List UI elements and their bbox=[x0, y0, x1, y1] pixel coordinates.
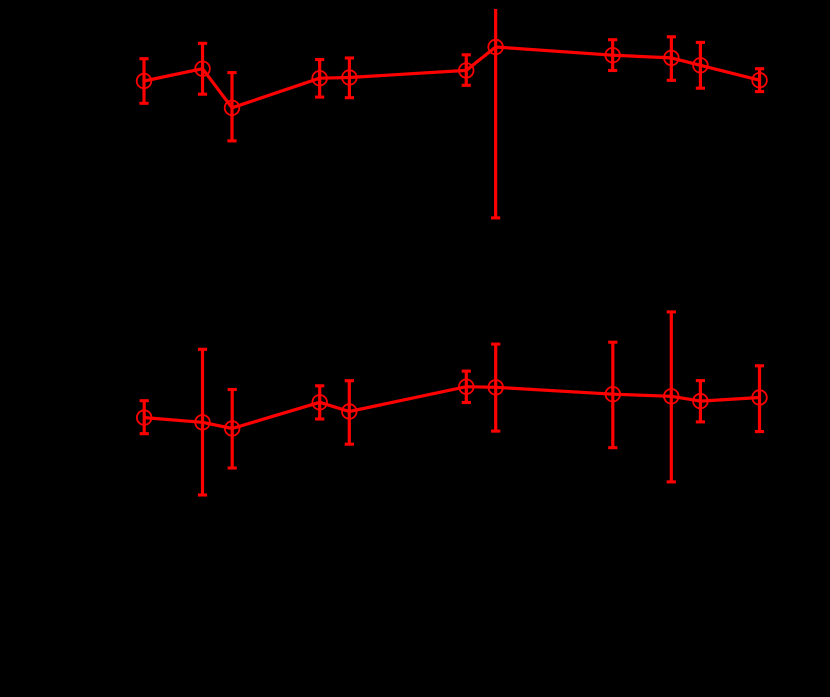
marker bot-6 bbox=[459, 379, 474, 394]
cap top top-1 bbox=[139, 57, 148, 60]
cap top bot-10 bbox=[696, 379, 705, 382]
marker top-9 bbox=[664, 51, 679, 66]
error bar top-11 bbox=[758, 69, 761, 92]
cap top top-6 bbox=[462, 53, 471, 56]
cap top top-11 bbox=[755, 67, 764, 70]
cap top top-8 bbox=[608, 38, 617, 41]
marker top-6 bbox=[459, 63, 474, 78]
marker bot-7 bbox=[488, 380, 503, 395]
cap bottom bot-3 bbox=[228, 466, 237, 469]
error bar bot-7 bbox=[494, 344, 497, 431]
marker bot-10 bbox=[693, 394, 708, 409]
cap bottom bot-6 bbox=[462, 401, 471, 404]
cap bottom top-2 bbox=[198, 93, 207, 96]
marker bot-4 bbox=[312, 395, 327, 410]
cap top bot-4 bbox=[315, 384, 324, 387]
marker bot-8 bbox=[606, 387, 621, 402]
data line top series bbox=[144, 47, 760, 108]
cap top bot-9 bbox=[667, 310, 676, 313]
cap bottom bot-9 bbox=[667, 480, 676, 483]
cap top bot-8 bbox=[608, 341, 617, 344]
marker top-1 bbox=[137, 74, 152, 89]
error bar top-10 bbox=[699, 42, 702, 88]
cap bottom top-3 bbox=[227, 139, 236, 142]
error bar top-2 bbox=[201, 43, 204, 94]
cap top bot-3 bbox=[228, 388, 237, 391]
cap bottom top-7 bbox=[491, 216, 500, 219]
marker top-5 bbox=[342, 70, 357, 85]
marker top-3 bbox=[225, 101, 240, 116]
marker top-7 bbox=[488, 40, 503, 55]
cap bottom top-9 bbox=[667, 79, 676, 82]
marker top-11 bbox=[752, 73, 767, 88]
marker bot-2 bbox=[195, 415, 210, 430]
cap top bot-2 bbox=[198, 348, 207, 351]
error bar bot-6 bbox=[465, 371, 468, 402]
error bar bot-3 bbox=[231, 390, 234, 469]
cap bottom top-8 bbox=[608, 69, 617, 72]
marker bot-5 bbox=[342, 404, 357, 419]
cap top top-9 bbox=[667, 35, 676, 38]
error bar top-6 bbox=[465, 55, 468, 86]
cap bottom top-5 bbox=[345, 96, 354, 99]
cap bottom bot-2 bbox=[198, 493, 207, 496]
marker top-2 bbox=[195, 61, 210, 76]
error bar bot-9 bbox=[670, 312, 673, 482]
cap top bot-7 bbox=[491, 343, 500, 346]
cap top bot-6 bbox=[462, 370, 471, 373]
error bar bot-2 bbox=[201, 349, 204, 495]
cap top top-3 bbox=[227, 71, 236, 74]
error bar top-5 bbox=[348, 58, 351, 98]
error bar top-8 bbox=[611, 40, 614, 71]
cap bottom bot-10 bbox=[696, 420, 705, 423]
cap top bot-1 bbox=[140, 399, 149, 402]
error bar top-4 bbox=[318, 60, 321, 98]
marker bot-11 bbox=[752, 390, 767, 405]
error bar bot-8 bbox=[611, 342, 614, 448]
cap bottom bot-8 bbox=[608, 446, 617, 449]
marker bot-9 bbox=[664, 389, 679, 404]
error bar top-3 bbox=[230, 73, 233, 141]
error bar bot-10 bbox=[699, 381, 702, 422]
data line bottom series bbox=[144, 387, 759, 429]
error bar top-7 bbox=[494, 9, 497, 218]
cap bottom top-11 bbox=[755, 90, 764, 93]
error bar bot-11 bbox=[758, 366, 761, 432]
cap top top-4 bbox=[315, 58, 324, 61]
error bar top-9 bbox=[670, 37, 673, 81]
marker bot-3 bbox=[225, 421, 240, 436]
cap top top-2 bbox=[198, 42, 207, 45]
error bar bot-1 bbox=[143, 401, 146, 434]
cap bottom top-1 bbox=[139, 102, 148, 105]
cap bottom bot-1 bbox=[140, 432, 149, 435]
cap bottom bot-4 bbox=[315, 417, 324, 420]
cap bottom bot-11 bbox=[755, 430, 764, 433]
error bar bot-4 bbox=[318, 386, 321, 419]
cap bottom bot-7 bbox=[491, 430, 500, 433]
marker top-10 bbox=[693, 58, 708, 73]
error bar top-1 bbox=[142, 59, 145, 104]
cap top top-10 bbox=[696, 41, 705, 44]
cap top bot-11 bbox=[755, 364, 764, 367]
cap bottom top-4 bbox=[315, 96, 324, 99]
cap bottom top-6 bbox=[462, 84, 471, 87]
cap top top-5 bbox=[345, 56, 354, 59]
marker top-8 bbox=[605, 48, 620, 63]
cap bottom bot-5 bbox=[345, 443, 354, 446]
marker top-4 bbox=[312, 71, 327, 86]
marker bot-1 bbox=[137, 410, 152, 425]
cap top bot-5 bbox=[345, 379, 354, 382]
error bar bot-5 bbox=[348, 381, 351, 445]
cap bottom top-10 bbox=[696, 87, 705, 90]
